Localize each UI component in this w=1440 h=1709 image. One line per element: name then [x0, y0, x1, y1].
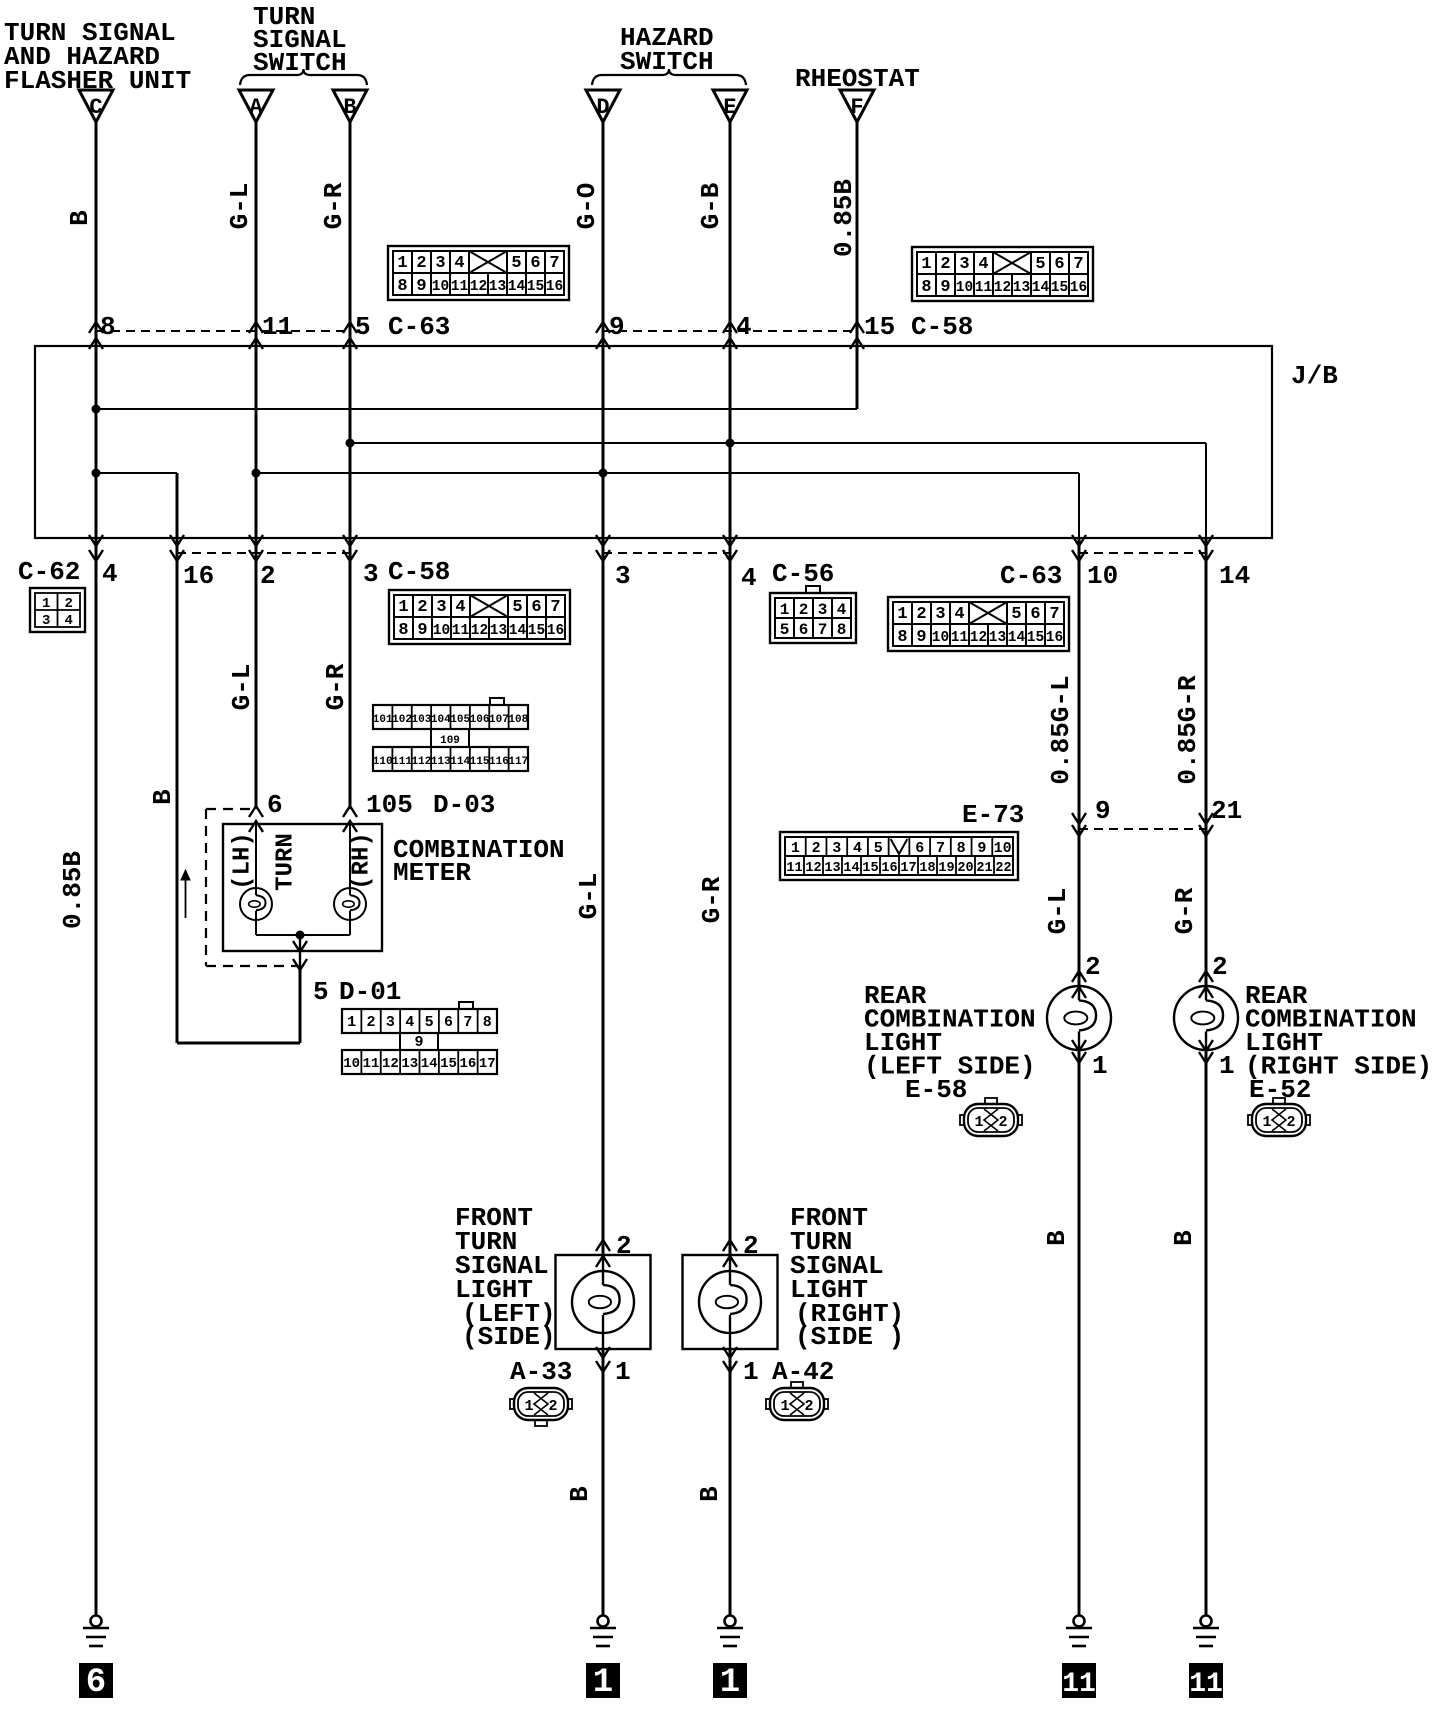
svg-text:15: 15 [862, 861, 878, 876]
svg-text:C-56: C-56 [772, 559, 834, 589]
svg-text:6: 6 [1030, 605, 1040, 624]
svg-text:J/B: J/B [1291, 361, 1338, 391]
svg-text:4: 4 [853, 840, 862, 857]
svg-text:1: 1 [720, 1664, 740, 1702]
svg-text:0.85G-L: 0.85G-L [1046, 675, 1076, 784]
svg-text:14: 14 [509, 623, 527, 639]
svg-text:A-33: A-33 [510, 1357, 572, 1387]
svg-text:16: 16 [547, 623, 564, 639]
svg-text:2: 2 [916, 605, 926, 624]
svg-text:A: A [249, 95, 263, 120]
svg-text:D-03: D-03 [433, 790, 495, 820]
svg-text:10: 10 [343, 1056, 360, 1072]
svg-text:11: 11 [1062, 1669, 1096, 1700]
svg-text:(RH): (RH) [349, 832, 376, 890]
svg-text:D-01: D-01 [339, 977, 401, 1007]
svg-text:16: 16 [183, 561, 214, 591]
svg-text:108: 108 [508, 714, 528, 726]
svg-text:11: 11 [363, 1056, 380, 1072]
svg-text:1: 1 [780, 1398, 789, 1415]
svg-text:10: 10 [994, 840, 1012, 857]
svg-text:C-63: C-63 [388, 312, 450, 342]
svg-text:15: 15 [528, 623, 545, 639]
svg-text:2: 2 [1085, 952, 1101, 982]
svg-text:(SIDE ): (SIDE ) [795, 1322, 904, 1352]
svg-text:10: 10 [433, 623, 450, 639]
svg-text:13: 13 [489, 279, 506, 295]
svg-text:9: 9 [1095, 796, 1111, 826]
svg-text:14: 14 [1219, 561, 1250, 591]
svg-text:1: 1 [791, 840, 800, 857]
svg-text:102: 102 [392, 714, 412, 726]
svg-text:B: B [1042, 1230, 1072, 1246]
svg-text:7: 7 [818, 621, 828, 639]
svg-text:12: 12 [805, 861, 821, 876]
svg-text:14: 14 [508, 279, 526, 295]
svg-text:C-63: C-63 [1000, 561, 1062, 591]
svg-text:4: 4 [954, 605, 964, 624]
svg-text:106: 106 [470, 714, 490, 726]
svg-text:13: 13 [989, 630, 1006, 646]
svg-text:2: 2 [548, 1398, 557, 1415]
svg-text:1: 1 [780, 601, 790, 619]
svg-text:B: B [695, 1486, 725, 1502]
svg-text:15: 15 [440, 1056, 457, 1072]
svg-text:15: 15 [864, 312, 895, 342]
svg-text:TURN: TURN [273, 833, 300, 891]
svg-text:2: 2 [260, 561, 276, 591]
svg-text:109: 109 [440, 735, 460, 747]
svg-text:3: 3 [435, 254, 445, 273]
svg-text:110: 110 [373, 756, 393, 768]
svg-text:9: 9 [940, 278, 950, 297]
svg-text:1: 1 [921, 255, 931, 274]
svg-text:4: 4 [454, 254, 464, 273]
svg-text:15: 15 [527, 279, 544, 295]
svg-text:115: 115 [470, 756, 490, 768]
svg-text:METER: METER [393, 858, 471, 888]
svg-text:6: 6 [267, 790, 283, 820]
svg-text:8: 8 [397, 277, 407, 296]
svg-text:9: 9 [414, 1034, 423, 1051]
svg-text:19: 19 [938, 861, 954, 876]
svg-text:4: 4 [736, 312, 752, 342]
svg-text:10: 10 [956, 280, 973, 296]
svg-text:5: 5 [512, 598, 522, 617]
svg-text:17: 17 [479, 1056, 496, 1072]
svg-text:8: 8 [957, 840, 966, 857]
svg-text:B: B [343, 95, 356, 120]
svg-text:15: 15 [1027, 630, 1044, 646]
svg-text:7: 7 [549, 254, 559, 273]
svg-text:4: 4 [741, 563, 757, 593]
svg-text:3: 3 [386, 1014, 395, 1031]
svg-text:1: 1 [1262, 1114, 1271, 1131]
svg-text:2: 2 [998, 1114, 1007, 1131]
svg-text:(SIDE): (SIDE) [462, 1322, 556, 1352]
svg-text:9: 9 [417, 621, 427, 640]
svg-text:3: 3 [935, 605, 945, 624]
svg-text:E-58: E-58 [905, 1075, 967, 1105]
svg-text:0.85B: 0.85B [58, 851, 88, 929]
svg-text:2: 2 [417, 598, 427, 617]
svg-text:1: 1 [593, 1664, 613, 1702]
svg-text:9: 9 [916, 628, 926, 647]
svg-text:12: 12 [471, 623, 488, 639]
svg-text:G-R: G-R [1170, 887, 1200, 934]
svg-text:2: 2 [1286, 1114, 1295, 1131]
svg-text:4: 4 [405, 1014, 414, 1031]
svg-text:4: 4 [102, 559, 118, 589]
svg-text:16: 16 [460, 1056, 477, 1072]
svg-text:101: 101 [373, 714, 393, 726]
svg-text:11: 11 [951, 630, 969, 646]
svg-text:G-L: G-L [1043, 888, 1073, 935]
svg-text:E-73: E-73 [962, 800, 1024, 830]
svg-text:16: 16 [1046, 630, 1063, 646]
svg-text:17: 17 [900, 861, 916, 876]
svg-text:8: 8 [100, 312, 116, 342]
svg-text:G-R: G-R [319, 182, 349, 229]
svg-text:11: 11 [786, 861, 802, 876]
svg-text:16: 16 [546, 279, 563, 295]
svg-text:2: 2 [743, 1231, 759, 1261]
svg-text:G-L: G-L [227, 664, 257, 711]
svg-text:8: 8 [921, 278, 931, 297]
svg-text:4: 4 [837, 601, 847, 619]
svg-text:9: 9 [416, 277, 426, 296]
svg-text:2: 2 [812, 840, 821, 857]
svg-text:10: 10 [432, 279, 449, 295]
svg-text:3: 3 [436, 598, 446, 617]
svg-text:1: 1 [615, 1357, 631, 1387]
svg-text:C-58: C-58 [388, 557, 450, 587]
svg-text:B: B [1169, 1230, 1199, 1246]
svg-text:2: 2 [616, 1231, 632, 1261]
svg-text:B: B [148, 789, 178, 805]
svg-text:2: 2 [1212, 952, 1228, 982]
svg-text:5: 5 [874, 840, 883, 857]
svg-text:G-L: G-L [574, 873, 604, 920]
svg-text:117: 117 [508, 756, 528, 768]
svg-text:3: 3 [832, 840, 841, 857]
svg-text:7: 7 [936, 840, 945, 857]
svg-text:1: 1 [524, 1398, 533, 1415]
svg-text:G-R: G-R [321, 663, 351, 710]
svg-text:3: 3 [959, 255, 969, 274]
svg-text:1: 1 [1092, 1051, 1108, 1081]
svg-text:10: 10 [1087, 561, 1118, 591]
svg-text:1: 1 [398, 598, 408, 617]
svg-text:1: 1 [397, 254, 407, 273]
svg-text:9: 9 [977, 840, 986, 857]
svg-text:105: 105 [366, 790, 413, 820]
svg-text:7: 7 [1073, 255, 1083, 274]
svg-text:14: 14 [421, 1056, 438, 1072]
svg-text:8: 8 [837, 621, 847, 639]
svg-text:9: 9 [609, 312, 625, 342]
svg-text:6: 6 [915, 840, 924, 857]
svg-text:111: 111 [392, 756, 412, 768]
svg-text:12: 12 [994, 280, 1011, 296]
svg-text:3: 3 [363, 559, 379, 589]
svg-text:16: 16 [881, 861, 897, 876]
svg-text:5: 5 [313, 977, 329, 1007]
svg-text:6: 6 [444, 1014, 453, 1031]
svg-text:8: 8 [483, 1014, 492, 1031]
svg-text:5: 5 [780, 621, 790, 639]
svg-text:11: 11 [262, 312, 293, 342]
svg-text:11: 11 [1189, 1669, 1223, 1700]
svg-text:3: 3 [42, 613, 50, 629]
svg-text:16: 16 [1070, 280, 1087, 296]
svg-text:1: 1 [347, 1014, 356, 1031]
svg-text:4: 4 [978, 255, 988, 274]
svg-text:4: 4 [65, 613, 73, 629]
svg-text:(LH): (LH) [230, 832, 257, 890]
svg-text:5: 5 [355, 312, 371, 342]
svg-text:1: 1 [743, 1357, 759, 1387]
svg-text:2: 2 [367, 1014, 376, 1031]
svg-text:6: 6 [799, 621, 809, 639]
svg-text:6: 6 [1054, 255, 1064, 274]
svg-text:14: 14 [1032, 280, 1050, 296]
svg-text:20: 20 [957, 861, 973, 876]
svg-text:5: 5 [425, 1014, 434, 1031]
svg-text:1: 1 [42, 596, 50, 612]
svg-text:13: 13 [490, 623, 507, 639]
svg-text:14: 14 [843, 861, 859, 876]
svg-text:F: F [850, 95, 863, 120]
svg-text:1: 1 [897, 605, 907, 624]
svg-text:5: 5 [1011, 605, 1021, 624]
svg-text:7: 7 [463, 1014, 472, 1031]
svg-text:3: 3 [615, 561, 631, 591]
svg-text:12: 12 [470, 279, 487, 295]
svg-text:7: 7 [550, 598, 560, 617]
svg-text:2: 2 [65, 596, 73, 612]
svg-text:13: 13 [824, 861, 840, 876]
svg-text:1: 1 [974, 1114, 983, 1131]
svg-text:C-62: C-62 [18, 557, 80, 587]
svg-text:5: 5 [1035, 255, 1045, 274]
svg-text:1: 1 [1219, 1051, 1235, 1081]
svg-text:18: 18 [919, 861, 935, 876]
svg-text:105: 105 [450, 714, 470, 726]
svg-text:2: 2 [804, 1398, 813, 1415]
svg-text:6: 6 [531, 598, 541, 617]
svg-text:0.85B: 0.85B [829, 179, 859, 257]
svg-text:104: 104 [431, 714, 451, 726]
svg-text:11: 11 [975, 280, 993, 296]
svg-text:2: 2 [416, 254, 426, 273]
svg-text:2: 2 [940, 255, 950, 274]
svg-text:B: B [65, 210, 95, 226]
svg-text:C-58: C-58 [911, 312, 973, 342]
svg-text:3: 3 [818, 601, 828, 619]
svg-text:C: C [89, 95, 102, 120]
svg-text:12: 12 [382, 1056, 399, 1072]
svg-text:114: 114 [450, 756, 470, 768]
svg-text:13: 13 [1013, 280, 1030, 296]
svg-text:4: 4 [455, 598, 465, 617]
svg-text:11: 11 [451, 279, 469, 295]
svg-text:G-R: G-R [697, 876, 727, 923]
svg-text:11: 11 [452, 623, 470, 639]
svg-text:6: 6 [530, 254, 540, 273]
svg-text:2: 2 [799, 601, 809, 619]
svg-text:21: 21 [976, 861, 992, 876]
svg-text:8: 8 [398, 621, 408, 640]
svg-text:G-B: G-B [696, 182, 726, 229]
svg-text:112: 112 [412, 756, 432, 768]
svg-text:107: 107 [489, 714, 509, 726]
svg-text:15: 15 [1051, 280, 1068, 296]
svg-text:12: 12 [970, 630, 987, 646]
svg-text:22: 22 [995, 861, 1011, 876]
svg-text:8: 8 [897, 628, 907, 647]
svg-text:116: 116 [489, 756, 509, 768]
svg-text:E: E [723, 95, 736, 120]
svg-text:G-O: G-O [572, 183, 602, 230]
svg-text:0.85G-R: 0.85G-R [1173, 675, 1203, 785]
svg-text:B: B [565, 1486, 595, 1502]
svg-text:6: 6 [86, 1664, 106, 1702]
svg-text:21: 21 [1211, 796, 1242, 826]
svg-text:5: 5 [511, 254, 521, 273]
svg-text:D: D [596, 95, 609, 120]
svg-text:103: 103 [412, 714, 432, 726]
svg-text:113: 113 [431, 756, 451, 768]
svg-text:E-52: E-52 [1249, 1075, 1311, 1105]
svg-text:10: 10 [932, 630, 949, 646]
svg-text:13: 13 [401, 1056, 418, 1072]
svg-text:14: 14 [1008, 630, 1026, 646]
svg-text:7: 7 [1049, 605, 1059, 624]
svg-text:G-L: G-L [225, 183, 255, 230]
